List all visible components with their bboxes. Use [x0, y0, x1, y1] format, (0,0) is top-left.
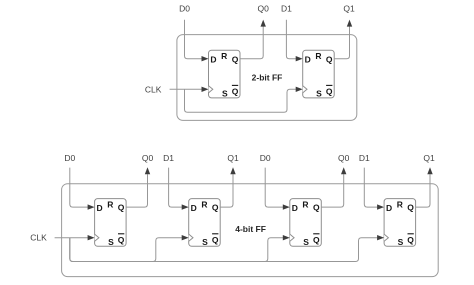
svg-text:D0: D0: [260, 153, 271, 163]
svg-text:Q: Q: [326, 87, 333, 97]
svg-text:Q: Q: [232, 54, 239, 64]
svg-text:CLK: CLK: [30, 233, 47, 243]
flip-flop U3: [95, 199, 127, 247]
svg-text:Q: Q: [232, 87, 239, 97]
svg-text:Q: Q: [212, 235, 219, 245]
wire CLK to U1.CLK: [170, 87, 209, 92]
clock chevron pin: [290, 234, 294, 241]
wire U4.Q to Q1: [220, 167, 236, 207]
svg-text:Q1: Q1: [227, 153, 239, 163]
svg-text:R: R: [107, 200, 113, 210]
svg-text:R: R: [201, 200, 207, 210]
svg-text:CLK: CLK: [145, 85, 162, 95]
svg-text:D1: D1: [359, 153, 370, 163]
wire D1 to U6.D: [364, 168, 384, 210]
svg-text:D0: D0: [64, 153, 75, 163]
wire D0 to U5.D: [265, 168, 290, 210]
svg-text:S: S: [108, 237, 114, 247]
svg-text:Q: Q: [313, 235, 320, 245]
svg-text:Q: Q: [118, 203, 125, 213]
svg-text:Q1: Q1: [343, 3, 355, 13]
wire U5.Q to Q0: [321, 167, 346, 207]
svg-text:D: D: [305, 55, 311, 65]
svg-text:Q: Q: [326, 54, 333, 64]
clock chevron pin: [303, 86, 307, 93]
wire D1 to U4.D: [169, 168, 189, 210]
clock chevron pin: [95, 234, 99, 241]
svg-text:Q: Q: [407, 203, 414, 213]
svg-text:Q: Q: [118, 235, 125, 245]
svg-text:D: D: [386, 203, 392, 213]
flip-flop U1: [209, 50, 241, 98]
wire D1 to U2.D: [286, 20, 302, 62]
svg-text:D: D: [97, 203, 103, 213]
wire CLK to U2.CLK: [185, 87, 303, 113]
container box 2-bit FF: [177, 35, 357, 121]
svg-text:Q: Q: [313, 203, 320, 213]
svg-text:R: R: [315, 51, 321, 61]
svg-text:S: S: [316, 89, 322, 99]
clock chevron pin: [189, 234, 193, 241]
svg-text:R: R: [302, 200, 308, 210]
svg-text:D1: D1: [163, 153, 174, 163]
svg-text:R: R: [397, 200, 403, 210]
clock chevron pin: [209, 86, 213, 93]
svg-text:Q0: Q0: [258, 3, 270, 13]
svg-text:R: R: [221, 51, 227, 61]
svg-text:D: D: [292, 203, 298, 213]
svg-text:Q0: Q0: [142, 153, 154, 163]
wire CLK to U4.CLK: [70, 235, 189, 262]
flip-flop U6: [384, 199, 416, 247]
svg-text:D: D: [191, 203, 197, 213]
svg-text:S: S: [303, 237, 309, 247]
svg-text:S: S: [222, 89, 228, 99]
wire CLK to U6.CLK: [70, 235, 384, 262]
wire D0 to U3.D: [70, 168, 95, 210]
svg-text:D0: D0: [179, 3, 190, 13]
flip-flop U4: [189, 199, 221, 247]
wire U6.Q to Q1: [416, 167, 433, 207]
svg-text:S: S: [202, 237, 208, 247]
wire U2.Q to Q1: [334, 20, 352, 59]
svg-text:Q0: Q0: [338, 153, 350, 163]
wire CLK to U5.CLK: [70, 235, 290, 262]
svg-text:4-bit FF: 4-bit FF: [235, 224, 266, 234]
wire U1.Q to Q0: [240, 20, 266, 59]
svg-text:Q: Q: [212, 203, 219, 213]
svg-text:Q1: Q1: [423, 153, 435, 163]
flip-flop U5: [290, 199, 322, 247]
svg-text:D1: D1: [281, 3, 292, 13]
flip-flop U2: [303, 50, 335, 98]
svg-text:S: S: [398, 237, 404, 247]
svg-text:2-bit FF: 2-bit FF: [252, 73, 283, 83]
clock chevron pin: [384, 234, 388, 241]
wire U3.Q to Q0: [126, 167, 150, 207]
container box 4-bit FF: [62, 184, 439, 277]
svg-text:Q: Q: [407, 235, 414, 245]
svg-text:D: D: [210, 55, 216, 65]
wire D0 to U1.D: [185, 20, 209, 62]
wire CLK to U3.CLK: [55, 235, 95, 240]
